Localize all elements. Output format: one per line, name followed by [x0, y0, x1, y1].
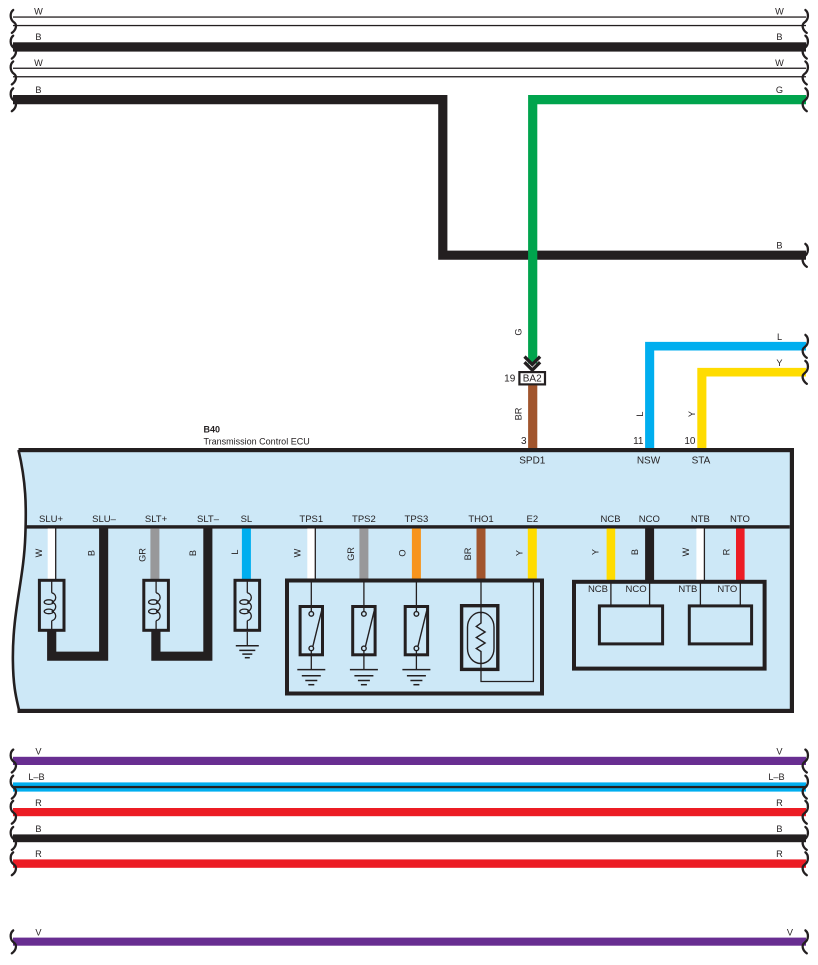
svg-text:V: V [787, 927, 794, 937]
wire G (green, SPD1 feed) [528, 95, 806, 364]
svg-text:THO1: THO1 [468, 514, 493, 525]
wire W from pin TPS1 [307, 529, 315, 581]
ECU box right border [790, 448, 794, 713]
svg-text:O: O [398, 549, 408, 556]
svg-text:TPS2: TPS2 [352, 514, 376, 525]
svg-text:B: B [35, 824, 41, 834]
svg-text:W: W [34, 58, 43, 68]
speed sensor NT element [689, 606, 751, 644]
ECU internal connector rail [25, 525, 790, 528]
thermistor THO1 [480, 581, 482, 615]
speed sensor sub-box (NCB/NCO/NTB/NTO) [574, 582, 765, 669]
arrow into BA2 (double chevron) [525, 357, 541, 365]
ECU box left torn edge [13, 450, 26, 711]
wire R (bottom 5th row) [13, 859, 806, 867]
svg-text:B: B [776, 241, 782, 251]
switch TPS3 [415, 581, 417, 613]
node NCB lead [610, 582, 612, 606]
svg-text:R: R [722, 548, 732, 555]
svg-text:BR: BR [514, 407, 524, 420]
svg-text:TPS1: TPS1 [299, 514, 323, 525]
switch & sensor sub-box (TPS/THO) [287, 581, 542, 694]
svg-text:V: V [35, 747, 42, 757]
svg-text:GR: GR [346, 547, 356, 561]
svg-text:STA: STA [692, 456, 711, 467]
svg-text:NCB: NCB [600, 514, 620, 525]
ECU box bottom border [18, 709, 795, 713]
svg-text:SL: SL [241, 514, 253, 525]
wire BR from pin THO1 [477, 529, 486, 581]
svg-text:V: V [776, 747, 783, 757]
speed sensor NC element [599, 606, 662, 644]
wire B from pin NCO [645, 529, 654, 582]
svg-text:GR: GR [138, 548, 148, 562]
svg-text:3: 3 [521, 436, 527, 447]
svg-text:W: W [34, 548, 44, 557]
switch TPS1 [310, 581, 312, 613]
ground (SL solenoid) [246, 632, 248, 646]
wire V (bottom 1st row) [13, 757, 806, 765]
wire B (4th row, turns down then right) [13, 95, 806, 260]
svg-text:L–B: L–B [28, 772, 44, 782]
svg-text:Y: Y [776, 358, 782, 368]
ECU box fill (B40) [13, 450, 792, 711]
svg-text:B: B [776, 32, 782, 42]
wire B from pin SLT- (U to solenoid) [151, 529, 212, 661]
svg-text:10: 10 [684, 436, 696, 447]
wire Y from pin NCB [607, 529, 616, 582]
wire L from pin SL [242, 529, 251, 581]
wire B from pin SLU- (U to solenoid) [47, 529, 108, 661]
svg-text:SLU+: SLU+ [39, 514, 63, 525]
wire W (top 1st row) [13, 16, 806, 26]
wire L-B (bottom 2nd row) [13, 782, 806, 791]
svg-text:TPS3: TPS3 [405, 514, 429, 525]
svg-text:BA2: BA2 [523, 374, 542, 385]
svg-text:Y: Y [591, 549, 601, 555]
svg-text:NCB: NCB [588, 584, 608, 595]
svg-text:G: G [514, 328, 524, 335]
wire W (top 3rd row) [13, 68, 806, 78]
solenoid SLU (coil) [39, 580, 64, 630]
svg-text:SLT–: SLT– [197, 514, 220, 525]
wire B (top 2nd row) [13, 42, 806, 51]
wire GR from pin TPS2 [359, 529, 368, 581]
svg-text:Transmission Control ECU: Transmission Control ECU [204, 436, 310, 446]
svg-text:W: W [293, 548, 303, 557]
svg-text:W: W [775, 58, 784, 68]
wire Y from pin E2 [528, 529, 537, 581]
svg-text:R: R [776, 849, 783, 859]
svg-text:SLU–: SLU– [92, 514, 116, 525]
svg-text:W: W [34, 7, 43, 17]
svg-text:V: V [35, 927, 42, 937]
wire W from pin NTB [696, 529, 704, 582]
svg-text:B: B [35, 85, 41, 95]
wire B (bottom 4th row) [13, 834, 806, 842]
switch TPS2 [363, 581, 365, 613]
svg-text:L: L [230, 549, 240, 554]
svg-text:11: 11 [633, 436, 644, 447]
svg-text:R: R [776, 798, 783, 808]
wire O from pin TPS3 [412, 529, 421, 581]
wire BR (BA2 to SPD1 pin 3) [528, 385, 537, 450]
svg-text:Y: Y [515, 550, 525, 556]
ground (TPS3) [402, 669, 430, 671]
wire THO1 bottom to E2 [481, 583, 533, 682]
svg-text:B: B [87, 550, 97, 556]
solenoid SL (coil) [235, 580, 260, 630]
ECU box top border [19, 448, 795, 452]
svg-text:G: G [776, 85, 783, 95]
svg-text:SLT+: SLT+ [145, 514, 168, 525]
svg-text:W: W [775, 7, 784, 17]
svg-text:NTO: NTO [717, 584, 737, 595]
svg-text:NCO: NCO [625, 584, 646, 595]
svg-text:R: R [35, 849, 42, 859]
svg-text:B: B [630, 549, 640, 555]
wire L (to NSW pin 11) [645, 342, 806, 450]
svg-text:L: L [777, 332, 782, 342]
svg-text:SPD1: SPD1 [519, 456, 546, 467]
svg-text:Y: Y [687, 411, 697, 417]
svg-text:NTB: NTB [678, 584, 697, 595]
svg-text:NTB: NTB [691, 514, 710, 525]
node NTO lead [739, 582, 741, 606]
svg-text:NTO: NTO [730, 514, 750, 525]
wire Y (to STA pin 10) [697, 368, 806, 450]
svg-text:L: L [635, 411, 645, 416]
svg-text:19: 19 [504, 374, 516, 385]
wire R (bottom 3rd row) [13, 808, 806, 816]
node NCO lead [649, 582, 651, 606]
svg-text:B: B [188, 550, 198, 556]
svg-text:R: R [35, 798, 42, 808]
svg-text:NSW: NSW [637, 456, 661, 467]
wire GR from pin SLT+ [150, 529, 159, 581]
wire V (bottom 6th row) [13, 938, 806, 946]
svg-text:NCO: NCO [639, 514, 660, 525]
svg-text:BR: BR [463, 547, 473, 560]
node NTB lead [699, 582, 701, 606]
wire W from pin SLU+ [48, 529, 56, 581]
svg-text:L–B: L–B [768, 772, 784, 782]
svg-text:E2: E2 [526, 514, 538, 525]
svg-text:B: B [35, 32, 41, 42]
ground (TPS1) [297, 669, 325, 671]
wire R from pin NTO [736, 529, 745, 582]
svg-text:B: B [776, 824, 782, 834]
connector BA2, pin 19 [519, 372, 545, 384]
svg-text:W: W [681, 547, 691, 556]
svg-text:B40: B40 [204, 424, 221, 434]
ground (TPS2) [350, 669, 378, 671]
solenoid SLT (coil) [144, 580, 169, 630]
